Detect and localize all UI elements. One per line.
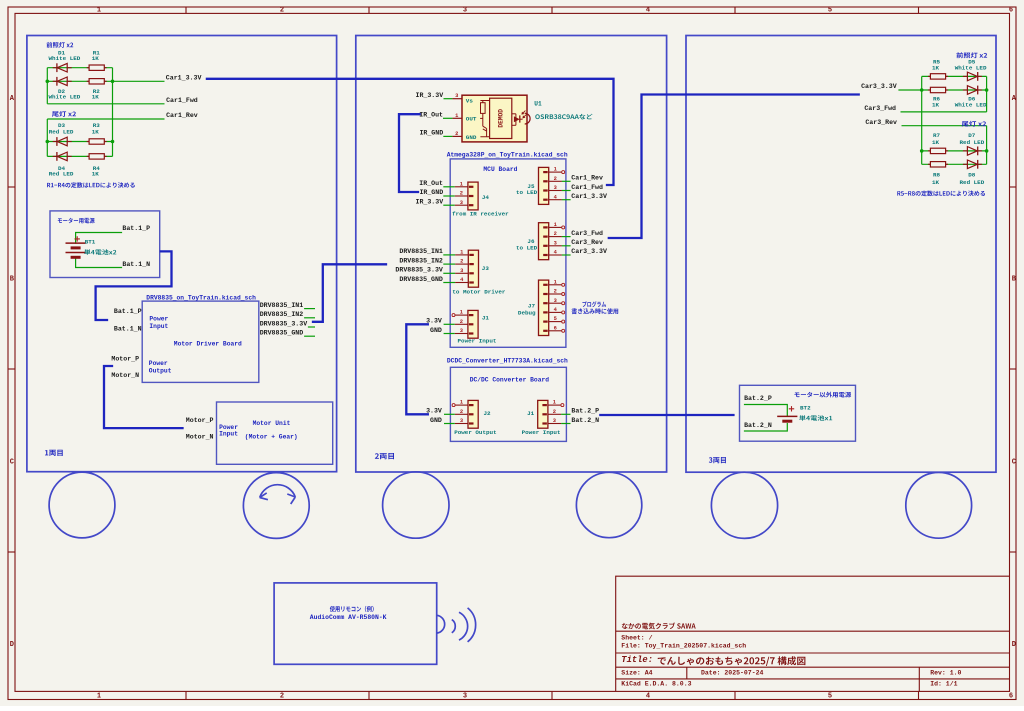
svg-text:1K: 1K — [932, 179, 940, 186]
svg-text:BT1: BT1 — [85, 238, 96, 245]
remote control label — [330, 606, 374, 612]
svg-text:White LED: White LED — [955, 65, 987, 72]
svg-text:OUT: OUT — [466, 115, 477, 122]
svg-text:DRV8835_3.3V: DRV8835_3.3V — [395, 267, 443, 274]
battery BT2 — [777, 415, 797, 417]
wire Bat.1_P — [76, 233, 122, 244]
svg-text:DRV8835_IN2: DRV8835_IN2 — [260, 311, 304, 318]
svg-text:R8: R8 — [933, 172, 941, 179]
svg-text:GND: GND — [430, 327, 442, 334]
svg-text:Car1_Fwd: Car1_Fwd — [571, 184, 603, 191]
U1 demodulator block — [490, 98, 512, 138]
wires at J1 mcu — [444, 323, 455, 325]
wire car1 led right vertical — [112, 68, 114, 157]
ic U1 ir receiver body — [462, 95, 527, 142]
svg-text:Power Output: Power Output — [454, 429, 496, 436]
car 1 outline — [27, 36, 337, 472]
resistor R7 — [928, 150, 930, 152]
svg-text:5: 5 — [554, 316, 557, 322]
diode D8 — [977, 160, 979, 169]
wires at J3 — [443, 254, 455, 256]
wire D1 row — [47, 67, 112, 69]
wires at J5 — [562, 180, 571, 182]
diode D4 — [56, 152, 58, 161]
svg-text:to LED: to LED — [516, 189, 538, 196]
connector J4 — [468, 182, 478, 210]
svg-text:3: 3 — [554, 240, 557, 246]
svg-text:Car1_3.3V: Car1_3.3V — [166, 74, 202, 81]
resistor R6 — [928, 89, 930, 91]
svg-text:KiCad E.D.A. 8.0.3: KiCad E.D.A. 8.0.3 — [621, 681, 691, 688]
svg-text:R7: R7 — [933, 132, 941, 139]
svg-text:Bat.1_N: Bat.1_N — [114, 325, 142, 332]
wire IR_GND to U1 — [443, 135, 452, 137]
svg-text:Car1_3.3V: Car1_3.3V — [571, 193, 607, 200]
svg-text:J3: J3 — [482, 265, 490, 272]
sheet MCU Board — [450, 159, 566, 347]
diode D7 — [977, 147, 979, 156]
svg-text:Atmega328P_on_ToyTrain.kicad_s: Atmega328P_on_ToyTrain.kicad_sch — [447, 152, 568, 159]
svg-text:6: 6 — [554, 325, 557, 331]
svg-text:Red LED: Red LED — [49, 171, 74, 178]
svg-text:Motor_N: Motor_N — [111, 372, 139, 379]
connector J7 debug — [539, 280, 549, 335]
sheet DC/DC Converter Board — [450, 367, 566, 441]
svg-text:DRV8835_3.3V: DRV8835_3.3V — [260, 320, 308, 327]
svg-text:4: 4 — [646, 7, 650, 15]
remote control box — [274, 583, 437, 664]
note motor power supply — [58, 218, 95, 224]
svg-text:IR_3.3V: IR_3.3V — [415, 92, 443, 99]
wire Car1_Rev row — [47, 118, 164, 120]
svg-text:IR_GND: IR_GND — [419, 130, 443, 137]
svg-text:IR_Out: IR_Out — [419, 112, 443, 119]
svg-text:D7: D7 — [968, 132, 976, 139]
wheel 2 of car 1 (driven) — [243, 473, 309, 539]
svg-text:Motor Driver Board: Motor Driver Board — [174, 341, 242, 348]
bus line MCU J1 3.3V to DCDC J2 — [406, 324, 428, 414]
car 2 label 2ryome — [375, 453, 394, 459]
svg-text:1K: 1K — [92, 93, 100, 100]
svg-text:2: 2 — [280, 693, 284, 701]
svg-text:2: 2 — [460, 409, 463, 415]
resistor R3 — [87, 141, 89, 143]
svg-text:D8: D8 — [968, 172, 976, 179]
wire car1 led left vertical bottom group — [46, 119, 48, 156]
svg-text:Bat.1_N: Bat.1_N — [122, 261, 150, 268]
frame row ticks left — [8, 186, 15, 188]
wire Bat.2_N to BT2 — [745, 424, 788, 431]
svg-text:File: Toy_Train_202507.kicad_s: File: Toy_Train_202507.kicad_sch — [621, 643, 746, 650]
note taillight x2 (car1) — [52, 111, 76, 117]
bus line BT1 to motor driver sheet power input — [96, 251, 172, 320]
svg-text:Car3_Rev: Car3_Rev — [571, 239, 603, 246]
svg-text:Size: A4: Size: A4 — [621, 669, 652, 676]
wire D6 row / Car3_3.3V — [898, 89, 986, 91]
resistor R4 — [87, 155, 89, 157]
svg-text:J4: J4 — [482, 194, 490, 201]
svg-text:Power Input: Power Input — [522, 429, 561, 436]
wires at J1 dcdc — [561, 413, 570, 415]
svg-text:2: 2 — [455, 131, 458, 137]
svg-text:Car1_Rev: Car1_Rev — [571, 175, 603, 182]
svg-text:C: C — [10, 458, 14, 466]
wire Car3_Rev row — [902, 125, 987, 127]
svg-text:1: 1 — [554, 279, 557, 285]
wire D8 row — [922, 163, 987, 165]
svg-text:4: 4 — [646, 693, 650, 701]
title block company name — [622, 623, 696, 630]
wire car3 led right vertical bottom group — [986, 126, 988, 165]
diode D6 — [977, 86, 979, 95]
svg-text:Power Input: Power Input — [458, 338, 497, 345]
svg-text:AudioComm AV-R580N-K: AudioComm AV-R580N-K — [310, 614, 387, 621]
U1 internal resistor and transistor — [480, 100, 489, 102]
svg-text:3: 3 — [455, 93, 458, 99]
car 3 outline — [686, 36, 996, 473]
wire Car3_Fwd row — [901, 111, 987, 113]
svg-text:D: D — [10, 641, 14, 649]
title block dividers — [616, 630, 1010, 632]
svg-text:Input: Input — [149, 323, 168, 330]
wheel 2 of car 2 — [576, 472, 641, 537]
note headlight x2 (car1) — [47, 42, 74, 48]
wire IR_Out to U1 — [443, 117, 452, 119]
bus line motor driver sheet to MCU J3 — [313, 264, 386, 322]
U1 photodiode — [512, 113, 516, 115]
svg-text:2: 2 — [554, 289, 557, 295]
wires at J6 — [562, 236, 571, 238]
svg-text:Motor Unit: Motor Unit — [253, 420, 291, 427]
svg-text:Power: Power — [149, 316, 168, 323]
wires at DRV8835 labels — [304, 308, 315, 310]
svg-text:(Motor + Gear): (Motor + Gear) — [245, 434, 298, 441]
svg-text:IR_Out: IR_Out — [419, 180, 443, 187]
car 3 label 3ryome — [709, 457, 726, 463]
U1 pin 3 Vs — [452, 98, 462, 100]
svg-text:5: 5 — [828, 693, 832, 701]
diode D1 — [56, 63, 58, 72]
svg-text:DCDC_Converter_HT7733A.kicad_s: DCDC_Converter_HT7733A.kicad_sch — [447, 358, 568, 365]
svg-text:1: 1 — [554, 222, 557, 228]
svg-text:3: 3 — [460, 268, 463, 274]
svg-text:U1: U1 — [534, 100, 542, 107]
svg-text:1: 1 — [460, 310, 463, 316]
svg-text:IR_3.3V: IR_3.3V — [415, 198, 443, 205]
junction dots car3 led block — [920, 88, 924, 92]
bus line from MCU J6 to car3 leds — [609, 95, 859, 239]
svg-text:6: 6 — [1009, 693, 1013, 701]
svg-text:J1: J1 — [527, 410, 535, 417]
svg-text:DRV8835_IN1: DRV8835_IN1 — [399, 248, 443, 255]
note resistor values car1 — [47, 182, 135, 188]
diode D3 — [56, 137, 58, 146]
svg-text:2: 2 — [280, 7, 284, 15]
svg-text:J2: J2 — [484, 410, 492, 417]
svg-text:DRV8835_IN2: DRV8835_IN2 — [399, 257, 443, 264]
bus line DCDC J1 Bat.2_P to BT2 — [599, 414, 734, 416]
svg-text:3: 3 — [553, 418, 556, 424]
diode D2 — [56, 77, 58, 86]
wires at J2 dcdc — [444, 413, 455, 415]
svg-text:from IR receiver: from IR receiver — [452, 211, 509, 218]
wheel 1 of car 2 — [383, 472, 449, 538]
svg-text:GND: GND — [466, 134, 477, 141]
svg-text:Red LED: Red LED — [960, 179, 985, 186]
battery BT1 — [66, 242, 86, 244]
svg-text:Bat.2_P: Bat.2_P — [744, 395, 772, 402]
svg-text:3: 3 — [554, 298, 557, 304]
svg-text:Car3_3.3V: Car3_3.3V — [861, 83, 897, 90]
svg-text:2: 2 — [554, 176, 557, 182]
resistor R5 — [928, 75, 930, 77]
frame column ticks bottom — [185, 691, 187, 699]
bus line IR receiver to MCU J4 — [399, 114, 420, 192]
svg-text:3.3V: 3.3V — [426, 318, 442, 325]
svg-text:Red LED: Red LED — [49, 129, 74, 136]
svg-text:BT2: BT2 — [800, 404, 811, 411]
svg-text:White LED: White LED — [955, 101, 987, 108]
svg-text:D: D — [1012, 641, 1016, 649]
U1 value OSRB38C9AA etc — [535, 114, 592, 120]
battery box car3 — [740, 385, 856, 441]
svg-text:Car1_Fwd: Car1_Fwd — [166, 97, 198, 104]
svg-text:Power: Power — [149, 360, 168, 367]
rotation arrow in driven wheel — [260, 485, 296, 498]
svg-text:Car3_Rev: Car3_Rev — [865, 119, 897, 126]
wire Car1_Fwd row — [47, 103, 164, 105]
wheel 1 of car 3 — [711, 472, 777, 538]
wire D2 row / Car1_3.3V — [47, 80, 164, 82]
svg-text:2: 2 — [554, 231, 557, 237]
svg-text:to LED: to LED — [516, 245, 538, 252]
svg-text:3: 3 — [460, 328, 463, 334]
svg-text:Sheet: /: Sheet: / — [621, 635, 652, 642]
svg-text:Title:: Title: — [621, 655, 653, 665]
svg-text:1K: 1K — [92, 55, 100, 62]
ir waves icon — [437, 615, 445, 633]
svg-text:1: 1 — [455, 113, 458, 119]
wires at J4 — [443, 186, 454, 188]
U1 pin 2 GND — [452, 135, 462, 137]
battery box car1 — [50, 211, 160, 278]
wire D4 row — [47, 155, 112, 157]
connector J5 to LED car1 — [539, 167, 549, 204]
svg-text:DRV8835_IN1: DRV8835_IN1 — [260, 302, 304, 309]
svg-text:Rev: 1.0: Rev: 1.0 — [930, 669, 961, 676]
svg-text:1: 1 — [460, 400, 463, 406]
frame row ticks right — [1010, 186, 1017, 188]
svg-text:3.3V: 3.3V — [426, 408, 442, 415]
frame column ticks top — [185, 7, 187, 13]
svg-text:DC/DC Converter Board: DC/DC Converter Board — [470, 377, 550, 384]
wire D7 row — [922, 150, 987, 152]
wheel 2 of car 3 — [906, 472, 972, 538]
wire car1 led left vertical top group — [46, 68, 48, 104]
svg-text:1: 1 — [460, 181, 463, 187]
svg-text:GND: GND — [430, 417, 442, 424]
wire car3 led right vertical top group — [986, 76, 988, 112]
svg-text:Car3_Fwd: Car3_Fwd — [571, 230, 603, 237]
svg-text:DRV8835_GND: DRV8835_GND — [260, 330, 304, 337]
svg-text:Bat.2_P: Bat.2_P — [571, 408, 599, 415]
svg-text:Date: 2025-07-24: Date: 2025-07-24 — [701, 669, 764, 676]
svg-text:Car3_3.3V: Car3_3.3V — [571, 248, 607, 255]
car 2 outline — [356, 36, 667, 473]
title block outline — [616, 576, 1010, 691]
svg-text:3: 3 — [460, 200, 463, 206]
resistor R1 — [87, 67, 89, 69]
svg-text:DEMOD: DEMOD — [497, 109, 504, 128]
bus line Car1_3.3V from car1 to MCU J5 — [207, 79, 614, 185]
svg-text:2: 2 — [460, 191, 463, 197]
svg-text:1K: 1K — [932, 101, 940, 108]
svg-text:3: 3 — [460, 418, 463, 424]
svg-text:2: 2 — [460, 319, 463, 325]
bus line motor driver power output to motor unit — [104, 366, 183, 428]
svg-text:2: 2 — [553, 409, 556, 415]
svg-text:5: 5 — [828, 7, 832, 15]
resistor R2 — [87, 80, 89, 82]
svg-text:White LED: White LED — [49, 93, 81, 100]
svg-text:MCU Board: MCU Board — [483, 166, 517, 173]
note resistor values car3 — [897, 191, 985, 197]
svg-text:White LED: White LED — [49, 55, 81, 62]
svg-text:3: 3 — [463, 7, 467, 15]
svg-text:DRV8835_on_ToyTrain.kicad_sch: DRV8835_on_ToyTrain.kicad_sch — [146, 294, 256, 301]
svg-text:6: 6 — [1009, 7, 1013, 15]
note non-motor power supply — [795, 392, 852, 398]
svg-text:Motor_P: Motor_P — [186, 417, 214, 424]
svg-text:Id: 1/1: Id: 1/1 — [930, 681, 957, 688]
svg-text:to Motor Driver: to Motor Driver — [452, 288, 505, 295]
svg-text:1: 1 — [554, 167, 557, 173]
motor unit box — [217, 402, 333, 464]
svg-text:1: 1 — [553, 400, 556, 406]
wire car3 led left vertical — [921, 76, 923, 164]
svg-text:1K: 1K — [92, 171, 100, 178]
svg-text:C: C — [1012, 458, 1016, 466]
svg-text:Car1_Rev: Car1_Rev — [166, 112, 198, 119]
svg-text:Bat.1_P: Bat.1_P — [122, 225, 150, 232]
wire D5 row — [922, 75, 987, 77]
svg-text:Bat.2_N: Bat.2_N — [744, 422, 772, 429]
U1 pin 1 OUT — [452, 117, 462, 119]
note program writing use — [582, 301, 606, 307]
connector J1 mcu power input — [468, 310, 478, 338]
svg-text:Motor_P: Motor_P — [111, 356, 139, 363]
connector J1 dcdc power input — [538, 400, 548, 428]
car 1 label 1ryome — [45, 450, 63, 456]
svg-text:1: 1 — [460, 250, 463, 256]
connector J2 dcdc power output — [468, 400, 478, 428]
svg-text:J1: J1 — [482, 314, 490, 321]
wire Bat.2_P to BT2 — [745, 405, 788, 417]
svg-text:Input: Input — [219, 431, 238, 438]
connector J3 — [468, 250, 478, 287]
svg-text:Motor_N: Motor_N — [186, 434, 214, 441]
svg-text:3: 3 — [463, 693, 467, 701]
svg-text:1: 1 — [97, 7, 101, 15]
svg-text:1: 1 — [97, 693, 101, 701]
U1 lens dome — [525, 113, 530, 124]
note headlight x2 (car3) — [956, 52, 987, 58]
svg-text:Car3_Fwd: Car3_Fwd — [864, 105, 896, 112]
wheel 1 of car 1 — [49, 472, 115, 538]
wire IR_3.3V to U1 — [444, 98, 453, 100]
junction dots car1 led block — [46, 80, 50, 84]
wire Bat.1_N — [76, 257, 122, 267]
svg-text:Output: Output — [149, 367, 172, 374]
svg-text:Bat.2_N: Bat.2_N — [571, 417, 599, 424]
svg-text:IR_GND: IR_GND — [419, 189, 443, 196]
svg-text:DRV8835_GND: DRV8835_GND — [399, 276, 443, 283]
resistor R8 — [928, 163, 930, 165]
sheet Motor Driver Board — [142, 301, 259, 382]
svg-text:Vs: Vs — [466, 98, 474, 105]
svg-text:Red LED: Red LED — [960, 139, 985, 146]
svg-text:1K: 1K — [932, 65, 940, 72]
note taillight x2 (car3) — [962, 121, 986, 127]
diode D5 — [977, 72, 979, 81]
wire D3 row — [47, 141, 112, 143]
svg-text:Bat.1_P: Bat.1_P — [114, 308, 142, 315]
svg-text:1K: 1K — [92, 129, 100, 136]
svg-text:2: 2 — [460, 259, 463, 265]
connector J6 to LED car3 — [539, 223, 549, 260]
svg-text:3: 3 — [554, 185, 557, 191]
svg-text:1K: 1K — [932, 139, 940, 146]
svg-text:Debug: Debug — [518, 309, 536, 316]
